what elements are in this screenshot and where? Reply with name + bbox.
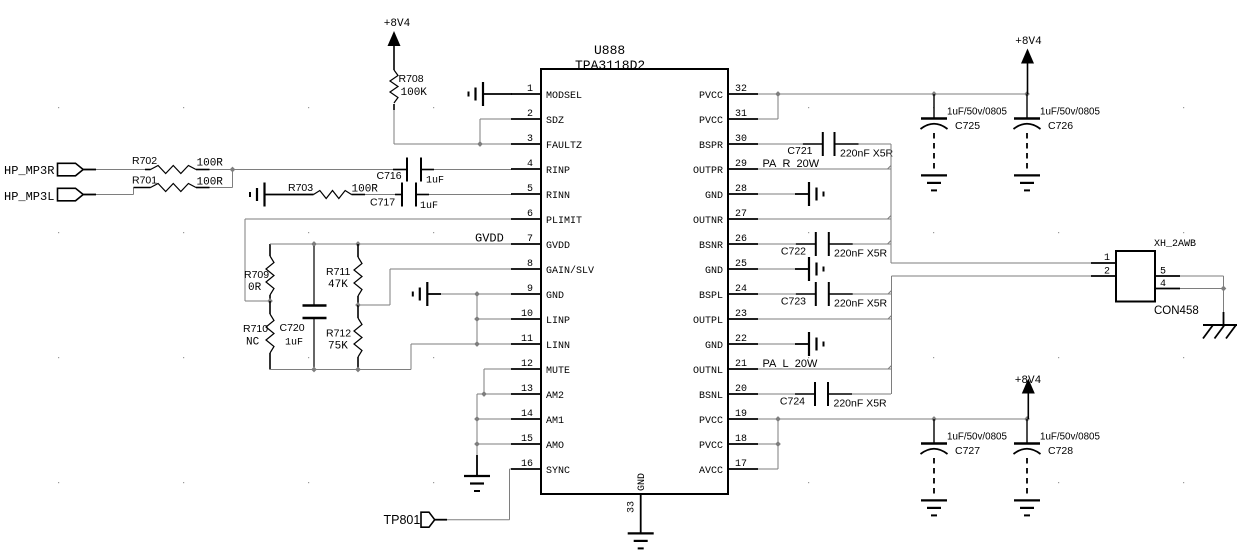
svg-text:12: 12 (521, 359, 533, 370)
junction pin 11 (474, 341, 480, 347)
svg-text:XH_2AWB: XH_2AWB (1154, 239, 1196, 250)
svg-text:PA_R_20W: PA_R_20W (763, 158, 820, 170)
svg-text:21: 21 (735, 359, 747, 370)
svg-text:BSPR: BSPR (699, 141, 723, 152)
wire ground to pin 1 (483, 93, 512, 95)
wire C717 to pin 5 (416, 194, 429, 196)
junction pin 14 (474, 416, 480, 422)
wire divider bottom rail (270, 369, 411, 371)
svg-text:26: 26 (735, 234, 747, 245)
junction pin 13 wire (481, 391, 487, 397)
ground (pin 33) (628, 532, 654, 534)
port TP801 (421, 512, 435, 527)
svg-text:220nF X5R: 220nF X5R (834, 398, 888, 410)
svg-text:100K: 100K (401, 87, 428, 99)
pin 2 SDZ (511, 118, 541, 120)
grid reference dots (58, 107, 59, 108)
svg-text:33: 33 (627, 501, 638, 513)
svg-text:8: 8 (527, 259, 533, 270)
svg-text:11: 11 (521, 334, 533, 345)
pin 21 OUTNL (728, 368, 758, 370)
pin 15 AMO (511, 443, 541, 445)
wire HP_MP3L to R701 (96, 194, 134, 196)
pin 28 GND (728, 193, 758, 195)
svg-text:GND: GND (705, 191, 723, 202)
pin 10 LINP (511, 318, 541, 320)
svg-text:4: 4 (527, 159, 533, 170)
junction pin 4 wire (1221, 286, 1227, 292)
svg-text:9: 9 (527, 284, 533, 295)
svg-text:14: 14 (521, 409, 533, 420)
svg-text:PA_L_20W: PA_L_20W (763, 358, 818, 370)
wire ground to R703 (265, 194, 314, 196)
svg-text:2: 2 (1104, 267, 1110, 278)
pin 6 PLIMIT (511, 218, 541, 220)
wire TP801 to pin 16 (447, 519, 510, 521)
wire pin 14 AM1 (477, 418, 512, 420)
wire R708 to pins 2,3 (393, 110, 395, 144)
junction C720 top (311, 241, 317, 247)
ground (pin 22) (758, 343, 809, 345)
pin 29 OUTPR (728, 168, 758, 170)
wire C716 to pin 4 (421, 169, 434, 171)
svg-text:RINP: RINP (546, 166, 570, 177)
junction R712 bottom (355, 367, 361, 373)
svg-text:5: 5 (1160, 267, 1166, 278)
svg-text:+8V4: +8V4 (384, 18, 411, 30)
junction pin 9 (474, 291, 480, 297)
pin 25 GND (728, 268, 758, 270)
svg-text:30: 30 (735, 134, 747, 145)
svg-text:LINN: LINN (546, 341, 570, 352)
svg-text:BSNL: BSNL (699, 391, 723, 402)
svg-text:1uF: 1uF (285, 338, 303, 349)
resistor R703 (314, 191, 352, 199)
svg-text:4: 4 (1160, 279, 1166, 290)
pin 27 OUTNR (728, 218, 758, 220)
capacitor C728 (1026, 419, 1028, 444)
svg-text:GND: GND (705, 341, 723, 352)
svg-text:5: 5 (527, 184, 533, 195)
capacitor C722 (758, 243, 796, 245)
capacitor C721 (758, 143, 803, 145)
wire OUTPL pin 23 (758, 318, 892, 320)
svg-text:1: 1 (527, 84, 533, 95)
junction R711 top (355, 241, 361, 247)
capacitor C716 (406, 158, 408, 182)
svg-text:GND: GND (546, 291, 564, 302)
connector pin 5 (1155, 275, 1180, 277)
pin 13 AM2 (511, 393, 541, 395)
wire AM rail (476, 394, 478, 456)
svg-text:SYNC: SYNC (546, 466, 570, 477)
wire OUTPR pin 29 (758, 168, 891, 170)
pin 31 PVCC (728, 118, 758, 120)
svg-text:+8V4: +8V4 (1015, 36, 1042, 48)
svg-text:C727: C727 (955, 445, 980, 457)
svg-text:PVCC: PVCC (699, 441, 723, 452)
wire pin 11 LINN (411, 343, 512, 345)
ground (pin 1 MODSEL) (482, 82, 484, 106)
pin 14 AM1 (511, 418, 541, 420)
junction C720 bottom (311, 367, 317, 373)
resistor R709 (269, 244, 271, 256)
svg-text:2: 2 (527, 109, 533, 120)
svg-text:C716: C716 (377, 170, 402, 182)
wire gain tap to pin 8 (358, 304, 390, 306)
pin 11 LINN (511, 343, 541, 345)
svg-text:RINN: RINN (546, 191, 570, 202)
svg-text:10: 10 (521, 309, 533, 320)
wire ground to pin 9 (427, 293, 441, 295)
capacitor C724 (758, 393, 795, 395)
wire GVDD rail (270, 243, 512, 245)
pin 18 PVCC (728, 443, 758, 445)
svg-text:R703: R703 (288, 182, 313, 194)
svg-text:R701: R701 (132, 175, 157, 187)
port HP_MP3R (58, 163, 84, 176)
pin 32 PVCC (728, 93, 758, 95)
pin 19 PVCC (728, 418, 758, 420)
svg-text:C725: C725 (955, 120, 980, 132)
svg-text:MODSEL: MODSEL (546, 91, 582, 102)
svg-text:1uF/50v/0805: 1uF/50v/0805 (1040, 432, 1100, 443)
svg-text:GVDD: GVDD (475, 232, 504, 246)
svg-text:PVCC: PVCC (699, 416, 723, 427)
pin 17 AVCC (728, 468, 758, 470)
svg-text:AMO: AMO (546, 441, 564, 452)
wire OUTNR pin 27 (758, 218, 891, 220)
svg-text:27: 27 (735, 209, 747, 220)
wire PVCC top rail (758, 93, 1027, 95)
svg-text:1uF: 1uF (426, 176, 444, 187)
junction C726 top (1024, 91, 1030, 97)
svg-text:CON458: CON458 (1154, 305, 1199, 317)
wire mix node to C716 (233, 169, 394, 171)
svg-text:C722: C722 (781, 246, 806, 258)
svg-text:1uF/50v/0805: 1uF/50v/0805 (1040, 107, 1100, 118)
svg-text:PLIMIT: PLIMIT (546, 216, 582, 227)
resistor R701 (134, 187, 151, 189)
wire pin 13 AM2 (477, 393, 512, 395)
svg-text:PVCC: PVCC (699, 116, 723, 127)
svg-text:TP801: TP801 (384, 513, 421, 527)
junction SDZ/FAULTZ (477, 141, 483, 147)
svg-text:FAULTZ: FAULTZ (546, 141, 582, 152)
capacitor C727 (933, 419, 935, 444)
wire corner chamfers (888, 166, 892, 170)
svg-text:R709: R709 (244, 269, 269, 281)
svg-text:31: 31 (735, 109, 747, 120)
svg-text:R711: R711 (326, 266, 350, 278)
svg-text:HP_MP3R: HP_MP3R (4, 164, 54, 178)
svg-text:1uF/50v/0805: 1uF/50v/0805 (947, 432, 1007, 443)
svg-text:SDZ: SDZ (546, 116, 564, 127)
junction pin 19 rail (775, 416, 781, 422)
svg-text:17: 17 (735, 459, 747, 470)
svg-text:C723: C723 (781, 296, 806, 308)
svg-text:3: 3 (527, 134, 533, 145)
capacitor C720 (313, 246, 315, 306)
svg-text:100R: 100R (197, 177, 224, 189)
resistor R708 (393, 46, 395, 70)
svg-text:47K: 47K (328, 279, 348, 291)
pin 12 MUTE (511, 368, 541, 370)
svg-text:32: 32 (735, 84, 747, 95)
wire OUTNL pin 21 (758, 368, 892, 370)
svg-text:0R: 0R (248, 282, 262, 294)
svg-text:C721: C721 (787, 145, 812, 157)
svg-text:1uF: 1uF (420, 201, 438, 212)
svg-text:100R: 100R (197, 158, 224, 170)
capacitor C723 (758, 293, 796, 295)
resistor R711 (357, 244, 359, 257)
svg-text:29: 29 (735, 159, 747, 170)
junction pin 15 (474, 441, 480, 447)
svg-text:C717: C717 (370, 197, 395, 209)
resistor R710 (269, 301, 271, 314)
resistor R702 (145, 169, 151, 171)
svg-text:OUTPR: OUTPR (693, 166, 723, 177)
wire pin 10 LINP (477, 318, 512, 320)
wire pin 15 AMO (477, 443, 512, 445)
wire PVCC bottom rail (758, 418, 1027, 420)
wire input gnd rail (476, 294, 478, 344)
junction pin 10 (474, 316, 480, 322)
svg-text:R702: R702 (132, 155, 157, 167)
svg-text:1uF/50v/0805: 1uF/50v/0805 (947, 107, 1007, 118)
junction pin 31 rail (775, 91, 781, 97)
svg-text:220nF X5R: 220nF X5R (834, 298, 888, 310)
pin 30 BSPR (728, 143, 758, 145)
junction C728 top (1024, 416, 1030, 422)
svg-text:U888: U888 (594, 43, 625, 58)
svg-text:AVCC: AVCC (699, 466, 723, 477)
svg-text:16: 16 (521, 459, 533, 470)
ground (pin 28) (758, 193, 809, 195)
pin 4 RINP (511, 168, 541, 170)
svg-text:1: 1 (1104, 253, 1110, 264)
svg-text:C720: C720 (280, 322, 305, 334)
junction C725 top (931, 91, 937, 97)
svg-text:23: 23 (735, 309, 747, 320)
junction mix node (230, 167, 236, 173)
ground (pin 9 GND) (426, 282, 428, 306)
svg-text:24: 24 (735, 284, 747, 295)
pin 8 GAIN/SLV (511, 268, 541, 270)
connector CON458 body (1116, 251, 1155, 302)
pin 5 RINN (511, 193, 541, 195)
svg-text:GND: GND (705, 266, 723, 277)
svg-text:20: 20 (735, 384, 747, 395)
svg-text:GND: GND (637, 473, 648, 491)
pin 26 BSNR (728, 243, 758, 245)
svg-text:28: 28 (735, 184, 747, 195)
junction R711/R712/GAIN (355, 302, 361, 308)
svg-text:25: 25 (735, 259, 747, 270)
svg-text:NC: NC (246, 337, 260, 349)
connector pin 1 (1091, 262, 1116, 264)
pin 24 BSPL (728, 293, 758, 295)
port HP_MP3L (58, 188, 84, 201)
svg-text:13: 13 (521, 384, 533, 395)
svg-text:C724: C724 (780, 396, 805, 408)
svg-text:22: 22 (735, 334, 747, 345)
pin 20 BSNL (728, 393, 758, 395)
pin 33 stub (640, 494, 642, 533)
pin 1 MODSEL (511, 93, 541, 95)
svg-text:PVCC: PVCC (699, 91, 723, 102)
pin 3 FAULTZ (511, 143, 541, 145)
svg-text:MUTE: MUTE (546, 366, 570, 377)
svg-text:220nF X5R: 220nF X5R (840, 148, 894, 160)
ground (AM pins) (476, 455, 478, 476)
capacitor C726 (1026, 94, 1028, 119)
pin 22 GND (728, 343, 758, 345)
wire pins 5,4 to earth (1180, 275, 1224, 277)
pin 7 GVDD (511, 243, 541, 245)
svg-text:R712: R712 (326, 328, 351, 340)
pin 16 SYNC (511, 468, 541, 470)
svg-text:BSPL: BSPL (699, 291, 723, 302)
capacitor C725 (933, 94, 935, 119)
wire pin 6 PLIMIT (245, 218, 512, 220)
svg-text:6: 6 (527, 209, 533, 220)
svg-text:AM2: AM2 (546, 391, 564, 402)
capacitor C717 (401, 183, 403, 207)
svg-text:220nF X5R: 220nF X5R (834, 248, 888, 260)
connector pin 2 (1091, 275, 1116, 277)
earth ground (1223, 312, 1225, 325)
junction pin 18 rail (775, 441, 781, 447)
svg-text:OUTNL: OUTNL (693, 366, 723, 377)
svg-text:R710: R710 (243, 323, 268, 335)
svg-text:OUTNR: OUTNR (693, 216, 723, 227)
ground (R703 input) (263, 183, 265, 207)
svg-text:75K: 75K (328, 341, 348, 353)
svg-text:OUTPL: OUTPL (693, 316, 723, 327)
svg-text:7: 7 (527, 234, 533, 245)
wire PA_L column (891, 276, 893, 394)
svg-text:BSNR: BSNR (699, 241, 723, 252)
wire pin 12 MUTE (484, 368, 512, 370)
svg-text:GVDD: GVDD (546, 241, 570, 252)
wire R702 to node (210, 169, 233, 171)
svg-text:C728: C728 (1048, 445, 1073, 457)
junction C727 top (931, 416, 937, 422)
connector pin 4 (1155, 288, 1180, 290)
svg-text:19: 19 (735, 409, 747, 420)
wire HP_MP3R to R702 (96, 169, 145, 171)
wire R703 to C717 (352, 194, 366, 196)
svg-text:18: 18 (735, 434, 747, 445)
IC U888 TPA3118D2 body (541, 69, 728, 494)
svg-text:HP_MP3L: HP_MP3L (4, 190, 54, 204)
svg-text:GAIN/SLV: GAIN/SLV (546, 265, 594, 277)
pin 23 OUTPL (728, 318, 758, 320)
svg-text:AM1: AM1 (546, 416, 564, 427)
svg-text:LINP: LINP (546, 316, 570, 327)
pin 9 GND (511, 293, 541, 295)
junction R709/R710/PLIMIT (267, 298, 273, 304)
wire PA_R column (890, 144, 892, 263)
svg-text:15: 15 (521, 434, 533, 445)
resistor R712 (357, 305, 359, 318)
svg-text:C726: C726 (1048, 120, 1073, 132)
ground (pin 25) (758, 268, 809, 270)
svg-text:R708: R708 (399, 73, 424, 85)
wire R701 to node (210, 187, 233, 189)
